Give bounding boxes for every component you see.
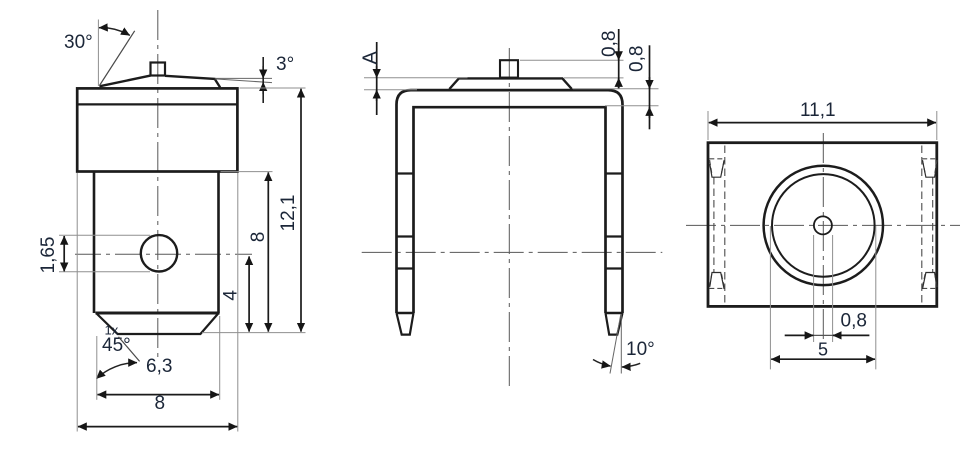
dimension right stack: extension line body top (221, 171, 273, 173)
dimension 0,8 bar: shaft (649, 45, 651, 129)
svg-text:0,8: 0,8 (599, 31, 620, 57)
wire: flange inner line (77, 103, 237, 105)
dimension 0,8 bar: extension line bar inner right (605, 105, 659, 107)
wire: left rolled edge bottom hidden edge (709, 273, 724, 288)
svg-text:8: 8 (155, 393, 166, 414)
dimension A: upper arrow (376, 66, 378, 78)
dimension 3 degrees: lower arrow (262, 82, 264, 94)
svg-text:11,1: 11,1 (800, 100, 836, 121)
dimension 3 degrees: slanted thin reference (215, 79, 272, 83)
dimension 0,8 hole: extension lines (813, 235, 815, 342)
node: U-clip inner outline (414, 107, 606, 313)
wire: horizontal centerline right view (686, 224, 960, 226)
wire: right leg notch tick 3 (606, 267, 623, 269)
node: inner circle right view (772, 174, 875, 277)
dimension 45 degrees: slanted chamfer extension line (119, 337, 140, 362)
node: bottom chamfered tip of front view (97, 314, 219, 335)
dimension 0,8 hole: connecting line (814, 334, 833, 336)
node: hole circle front view (141, 235, 177, 271)
dimension 0,8 bar: extension line bar top right (573, 88, 659, 90)
dimension 0,8 bar: lower arrow (649, 107, 651, 118)
dimension 0,8 peg: upper arrow (618, 48, 620, 60)
dimension A: extension line cap top left (364, 77, 468, 79)
dimension overall width bottom: extension lines (76, 173, 78, 432)
dimension 11,1: arrow line (709, 122, 936, 124)
wire: right leg taper start line (606, 312, 623, 315)
wire: vertical centerline right view (822, 133, 824, 341)
dimension 0,8 bar: upper arrow (649, 77, 651, 89)
dimension 12,1: arrow line (300, 89, 302, 332)
dimension 10 degrees: arc right part with arrow (622, 363, 640, 367)
dimension overall width bottom: arrow line (78, 426, 237, 428)
wire: horizontal centerline through hole, front view (75, 253, 252, 255)
dimension 10 degrees: arc left part with arrow (593, 360, 611, 367)
node: cap trapezoid side view (449, 78, 571, 89)
svg-text:6,3: 6,3 (146, 356, 172, 377)
node: body rectangle of front view (94, 172, 219, 314)
wire: left rolled edge inner hidden line (713, 177, 715, 272)
svg-text:30°: 30° (64, 32, 93, 53)
svg-text:A: A (360, 51, 382, 65)
wire: right leg taper (606, 313, 623, 335)
wire: left leg notch tick 2 (397, 235, 414, 237)
dimension 0,8 peg: extension line peg top (520, 59, 624, 61)
svg-text:3°: 3° (276, 54, 294, 75)
svg-text:8: 8 (248, 232, 269, 243)
node: flange rectangle of front view (77, 88, 237, 171)
wire: body bottom thick line (95, 312, 219, 315)
dimension 3 degrees: upper arrow (262, 66, 264, 78)
dimension 8 bottom: extension lines (96, 336, 98, 400)
dimension 30 degrees: slanted line (100, 31, 135, 86)
dimension right stack: extension line flange top (240, 87, 306, 89)
svg-text:0,8: 0,8 (627, 46, 648, 72)
wire: vertical centerline side view (508, 48, 510, 388)
wire: right rolled edge outer hidden line (921, 146, 923, 306)
wire: cap sloped top surface front view (99, 76, 220, 88)
svg-text:4: 4 (221, 290, 242, 301)
wire: left rolled edge outer hidden line (724, 146, 726, 306)
dimension 4: arrow line (248, 256, 250, 331)
node: outer circle right view (764, 166, 883, 285)
dimension A: lower arrow (376, 90, 378, 101)
node: small hole right view (814, 216, 832, 234)
dimension A: extension line cap bottom left (364, 89, 417, 91)
wire: right rolled edge top solid cup (923, 161, 937, 178)
dimension 5: extension lines (769, 226, 771, 369)
dimension 0,8 peg: lower arrow (618, 78, 620, 89)
wire: right rolled edge bottom solid cup (923, 273, 937, 290)
wire: left rolled edge bottom solid cup (710, 273, 724, 290)
dimension right stack: extension line part bottom (202, 332, 306, 334)
dimension 45 degrees: arc with arrows (96, 363, 137, 379)
dimension 5: arrow line (771, 358, 875, 360)
node: peg side view (500, 60, 518, 77)
node: U-clip outer outline (397, 90, 623, 313)
wire: right leg notch tick 1 (606, 172, 623, 174)
dimension 8 vertical: arrow line (267, 172, 269, 331)
dimension 3 degrees: horizontal thin reference (216, 77, 273, 79)
wire: right rolled edge bottom hidden edge (922, 273, 937, 288)
dimension 0,8 peg: extension line cap top right (564, 77, 624, 79)
wire: left leg notch tick 3 (397, 267, 414, 269)
dimension A: shaft (376, 42, 378, 115)
wire: left leg taper (397, 313, 414, 335)
node: top peg front view (151, 63, 166, 76)
wire: horizontal centerline side view (362, 251, 663, 253)
dimension 11,1: extension lines (707, 111, 709, 140)
dimension 30 degrees: arc with arrows (99, 28, 130, 36)
dimension 0,8 hole: left arrow (785, 334, 814, 336)
wire: vertical centerline of front view (157, 10, 159, 358)
dimension 10 degrees: slanted thin reference (610, 314, 621, 373)
node: rectangle outline right view (708, 143, 937, 307)
wire: left rolled edge top solid cup (710, 161, 724, 178)
svg-text:10°: 10° (626, 339, 655, 360)
svg-text:5: 5 (818, 340, 828, 360)
dimension 30 degrees: extension line vertical (97, 20, 99, 87)
dimension 8 bottom: arrow line (98, 394, 220, 396)
wire: left rolled edge top hidden edge (709, 159, 724, 174)
svg-text:0,8: 0,8 (841, 311, 867, 332)
svg-text:12,1: 12,1 (278, 195, 299, 232)
dimension 1,65: arrow line (63, 236, 65, 271)
wire: right rolled edge inner hidden line (932, 177, 934, 272)
wire: right rolled edge top hidden edge (922, 159, 937, 174)
svg-text:1,65: 1,65 (38, 237, 59, 274)
dimension 0,8 peg: shaft (618, 29, 620, 89)
dimension 10 degrees: vertical thin reference (620, 314, 622, 374)
dimension 1,65: extension lines (59, 234, 150, 236)
wire: left leg taper start line (397, 312, 414, 315)
wire: right leg notch tick 2 (606, 235, 623, 237)
dimension 3 degrees: shaft (262, 57, 264, 103)
wire: left leg notch tick 1 (397, 172, 414, 174)
dimension 0,8 hole: right arrow (833, 334, 870, 336)
